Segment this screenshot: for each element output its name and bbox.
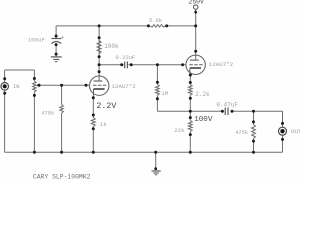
node: rail / pot junction — [33, 151, 36, 154]
pot wiper arrow — [36, 84, 40, 87]
wire: OUT jack stem upper — [282, 111, 284, 127]
resistor R1 100k (tube1 plate load) — [97, 41, 101, 54]
wire: 475k grid-leak drop — [61, 85, 63, 104]
node: output T-junction at 22k — [189, 110, 192, 113]
svg-text:12AU7*2: 12AU7*2 — [111, 83, 136, 90]
node: 2.2k top terminal — [189, 81, 192, 84]
wire: ground stub at bottom — [155, 152, 157, 168]
node: tube1 cathode exit — [92, 96, 95, 99]
wire: tube1 grid wire from pot wiper — [39, 84, 90, 86]
node: top rail / 100k junction — [98, 24, 101, 27]
wire: 22k top stem — [189, 111, 191, 120]
wire: 475k grid-leak to ground rail — [61, 113, 63, 152]
wire: 100uF branch drop from top rail — [55, 26, 57, 38]
label 1M — [161, 90, 168, 97]
wire: top B+ rail (5.6k to 250V node) — [167, 25, 196, 27]
label 2.2k — [195, 91, 210, 98]
tube U1 12AU7 first triode — [90, 76, 109, 95]
svg-text:5.6k: 5.6k — [149, 17, 163, 24]
caption CARY SLP-100MK2 — [33, 174, 91, 181]
svg-text:IN: IN — [13, 83, 20, 90]
node: pot top terminal — [33, 77, 36, 80]
node: 1k bottom terminal — [92, 127, 95, 130]
resistor R6 2.2k (tube2 cathode) — [188, 85, 192, 96]
node: 1M top junction — [156, 63, 159, 66]
capacitor C3 0.47uF (output coupling) — [225, 108, 228, 116]
svg-text:2.2V: 2.2V — [96, 102, 116, 111]
label 5.6k — [149, 17, 163, 24]
node: pot bottom terminal — [33, 94, 36, 97]
ground: main at bottom rail — [152, 171, 161, 175]
svg-text:100uF: 100uF — [28, 36, 46, 43]
node: 5.6k right terminal — [165, 24, 168, 27]
node: 0.47uF left terminal — [221, 110, 224, 113]
wire: tube2 plate lead from top rail — [195, 26, 197, 60]
wire: 250V terminal feed — [195, 9, 197, 26]
node: 2.2k bottom terminal — [189, 97, 192, 100]
connector J1 IN jack — [1, 83, 9, 91]
resistor R4 1k (tube1 cathode) — [91, 118, 95, 127]
wire: 1M drop from coupling wire — [156, 65, 158, 85]
tube U2 12AU7 second triode — [186, 55, 205, 74]
label IN — [13, 83, 20, 90]
label 0.47uF — [216, 101, 238, 108]
node: tube2 grid terminal — [181, 63, 184, 66]
svg-text:475k: 475k — [41, 110, 54, 116]
node: dot below 250V terminal — [194, 11, 197, 14]
label 1k — [100, 121, 107, 128]
node: 1k top terminal — [92, 114, 95, 117]
potentiometer VR1 volume (475k element) — [33, 81, 37, 92]
capacitor C2 0.22uF (coupling) — [125, 62, 128, 69]
node: 5.6k left terminal — [147, 24, 150, 27]
terminal: 250V supply — [194, 5, 198, 9]
node: ground stub terminal — [154, 167, 157, 170]
node: 475k right top terminal — [252, 120, 255, 123]
label 475k left — [41, 110, 54, 116]
resistor R8 475k (output load) — [252, 125, 256, 139]
label 475k right — [235, 130, 248, 136]
node: 475k right bottom terminal — [252, 140, 255, 143]
svg-text:12AU7*2: 12AU7*2 — [209, 61, 234, 68]
wire: coupling node to 0.22uF — [99, 64, 124, 66]
svg-text:100V: 100V — [194, 116, 213, 124]
label 2.2V annotation — [96, 102, 116, 111]
label 12AU7*2 (tube2) — [209, 61, 234, 68]
node: IN jack bottom terminal — [3, 92, 6, 95]
svg-text:1M: 1M — [161, 90, 168, 97]
label 100uF — [28, 36, 46, 43]
svg-text:100k: 100k — [104, 43, 119, 50]
wire: 100uF bottom to ground — [55, 44, 57, 57]
node: 22k top terminal — [189, 116, 192, 119]
node: 22k bottom terminal — [189, 133, 192, 136]
node: top rail / 250V junction — [194, 24, 197, 27]
svg-text:475k: 475k — [235, 130, 248, 136]
wire: IN jack stem lower to ground rail — [4, 90, 6, 152]
ground: below 100uF — [51, 57, 62, 62]
wire: output wire (0.47uF to OUT corner) — [232, 110, 283, 112]
label 0.22uF — [116, 54, 136, 61]
node: 100uF bottom terminal — [55, 43, 58, 46]
svg-text:CARY SLP-100MK2: CARY SLP-100MK2 — [33, 174, 91, 181]
wire: OUT jack stem lower — [282, 135, 284, 152]
node: rail / 1k junction — [92, 151, 95, 154]
node: 100uF top terminal — [55, 35, 58, 38]
svg-text:1k: 1k — [100, 121, 107, 128]
node: rail / 475k-left junction — [60, 151, 63, 154]
label 100V annotation — [194, 116, 213, 124]
node: tube1 grid terminal — [85, 84, 88, 87]
label 100k — [104, 43, 119, 50]
wire: tube1 plate lead — [98, 65, 100, 81]
wire: 1k to ground rail — [92, 127, 94, 153]
connector J2 OUT jack — [279, 127, 287, 135]
node: coupling T-junction — [98, 63, 101, 66]
node: 100k bottom terminal — [98, 55, 101, 58]
node: OUT jack top terminal — [281, 122, 284, 125]
node: 100uF ground terminal — [55, 53, 58, 56]
node: rail / ground-stub junction — [154, 151, 157, 154]
wire: 475k output-load to ground rail — [253, 139, 255, 153]
wire: 1M bottom to output corner — [156, 95, 158, 111]
wire: 22k bottom to ground rail — [189, 132, 191, 153]
resistor R7 22k — [188, 121, 192, 132]
label OUT — [291, 128, 302, 135]
node: rail / 475k-right junction — [252, 151, 255, 154]
node: output / 475k junction — [252, 110, 255, 113]
wire: IN jack stem upper — [4, 70, 6, 83]
wire: output wire (1M corner to 0.47uF) — [157, 110, 222, 112]
wire: pot top corner drop — [33, 70, 35, 81]
node: 100k top terminal — [98, 36, 101, 39]
node: tube2 plate terminal — [194, 50, 197, 53]
wire: 0.22uF to tube2 grid — [128, 64, 186, 66]
label 22k — [174, 127, 185, 134]
svg-text:250V: 250V — [189, 0, 205, 6]
wire: 2.2k bottom to output node — [189, 95, 191, 111]
wire: top B+ rail (100uF corner to 5.6k) — [56, 25, 148, 27]
node: 1M upper terminal — [156, 81, 159, 84]
node: 1M lower terminal — [156, 97, 159, 100]
label 250V — [189, 0, 205, 6]
node: 0.22uF right terminal — [130, 63, 133, 66]
node: pot wiper dot — [38, 84, 41, 87]
node: rail / 22k junction — [189, 151, 192, 154]
node: 0.47uF right terminal — [231, 110, 234, 113]
label 12AU7*2 (tube1) — [111, 83, 136, 90]
node: OUT jack bottom terminal — [281, 138, 284, 141]
wire: pot bottom to ground rail — [33, 92, 35, 152]
wire: bottom ground rail — [5, 151, 283, 153]
svg-text:2.2k: 2.2k — [195, 91, 210, 98]
svg-text:OUT: OUT — [291, 128, 300, 135]
resistor R3 475k (tube1 grid leak) — [60, 105, 64, 114]
wire: 100k branch vertical — [98, 26, 100, 65]
svg-text:0.47uF: 0.47uF — [216, 101, 238, 108]
wire: IN jack top horizontal — [5, 69, 35, 71]
node: 0.22uF left terminal — [120, 63, 123, 66]
resistor R2 5.6k (B+ dropper) — [150, 25, 165, 28]
node: grid wire / 475k junction — [60, 84, 63, 87]
wire: tube2 cathode drop — [189, 75, 191, 85]
svg-text:22k: 22k — [174, 127, 185, 134]
node: tube2 cathode exit — [189, 74, 192, 77]
svg-text:0.22uF: 0.22uF — [116, 54, 136, 61]
node: IN jack top terminal — [3, 77, 6, 80]
capacitor C1 100uF (polarized bypass) — [51, 36, 63, 44]
wire: 475k output-load top stem — [253, 111, 255, 124]
wire: tube1 cathode drop — [92, 95, 94, 117]
resistor R5 1M (tube2 grid) — [156, 85, 160, 96]
node: tube1 plate terminal — [98, 70, 101, 73]
